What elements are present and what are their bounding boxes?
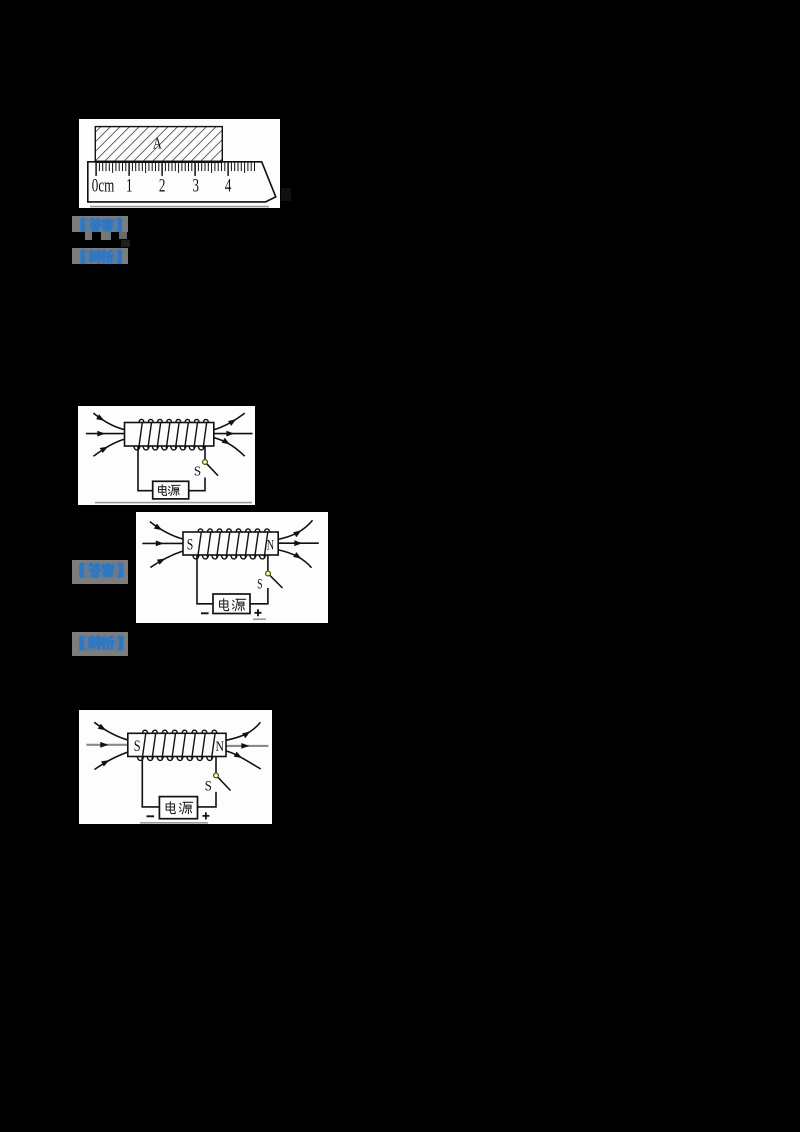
minus terminal label	[201, 612, 209, 614]
faint jpeg artifact right of figure 1	[281, 188, 291, 201]
plus terminal label	[202, 812, 209, 819]
scan shadow line	[90, 206, 269, 208]
ruler numbers	[92, 174, 232, 196]
svg-text:S: S	[187, 536, 194, 554]
svg-text:S: S	[134, 738, 141, 756]
coil winding	[193, 529, 270, 559]
field lines left	[86, 413, 125, 456]
scan shadow line	[95, 502, 252, 504]
wire left	[138, 446, 153, 491]
switch blade	[218, 777, 231, 790]
wire left	[197, 555, 213, 604]
svg-text:S: S	[205, 779, 212, 795]
scan shadow line	[140, 822, 208, 824]
switch pivot	[266, 571, 271, 576]
solenoid coil body	[125, 423, 214, 447]
plus terminal label	[255, 609, 262, 616]
answer label 【答案】 (second)	[72, 560, 128, 584]
coil winding	[134, 419, 209, 450]
power supply box 电源	[159, 797, 197, 819]
switch blade	[270, 575, 283, 588]
svg-text:S: S	[257, 576, 263, 592]
svg-text:1: 1	[126, 174, 133, 196]
wire right upper	[215, 757, 217, 773]
field lines left	[86, 722, 128, 769]
svg-text:2: 2	[159, 174, 166, 196]
wire right lower	[198, 792, 217, 807]
solenoid coil body	[183, 532, 278, 555]
svg-text:3: 3	[192, 174, 199, 196]
wire right upper	[204, 446, 206, 459]
figure 4: solenoid with S/N poles and power supply	[79, 710, 272, 824]
wire right lower	[250, 588, 268, 604]
analysis label 【解析】 (second)	[72, 632, 128, 656]
power supply box 电源	[153, 481, 189, 499]
figure 3: solenoid with S/N poles and power supply	[136, 512, 328, 623]
faint answer text remnants	[85, 232, 93, 240]
answer label 【答案】	[72, 216, 128, 233]
scan shadow line	[253, 618, 266, 620]
solenoid coil body	[128, 733, 226, 756]
switch pivot	[214, 773, 219, 778]
wire right lower	[189, 478, 205, 491]
field lines right	[226, 722, 268, 769]
svg-text:N: N	[267, 537, 274, 553]
field lines left	[142, 522, 183, 568]
field lines right	[278, 520, 319, 568]
analysis label 【解析】	[72, 248, 128, 265]
ruler body	[88, 162, 276, 202]
figure 2: solenoid with power supply (no poles marked)	[78, 406, 255, 505]
wire left	[142, 757, 159, 807]
svg-text:A: A	[153, 135, 163, 153]
svg-text:4: 4	[225, 174, 232, 196]
wire right upper	[267, 555, 269, 571]
switch blade	[207, 464, 218, 476]
figure 1: ruler measuring object A	[79, 119, 280, 208]
power supply box 电源	[213, 594, 250, 614]
field lines right	[214, 413, 253, 456]
switch pivot	[203, 460, 208, 465]
svg-text:0cm: 0cm	[92, 174, 115, 196]
svg-text:S: S	[194, 463, 201, 478]
minus terminal label	[147, 815, 155, 817]
svg-text:N: N	[215, 738, 224, 755]
ruler ticks	[96, 162, 254, 176]
coil winding	[137, 730, 217, 760]
